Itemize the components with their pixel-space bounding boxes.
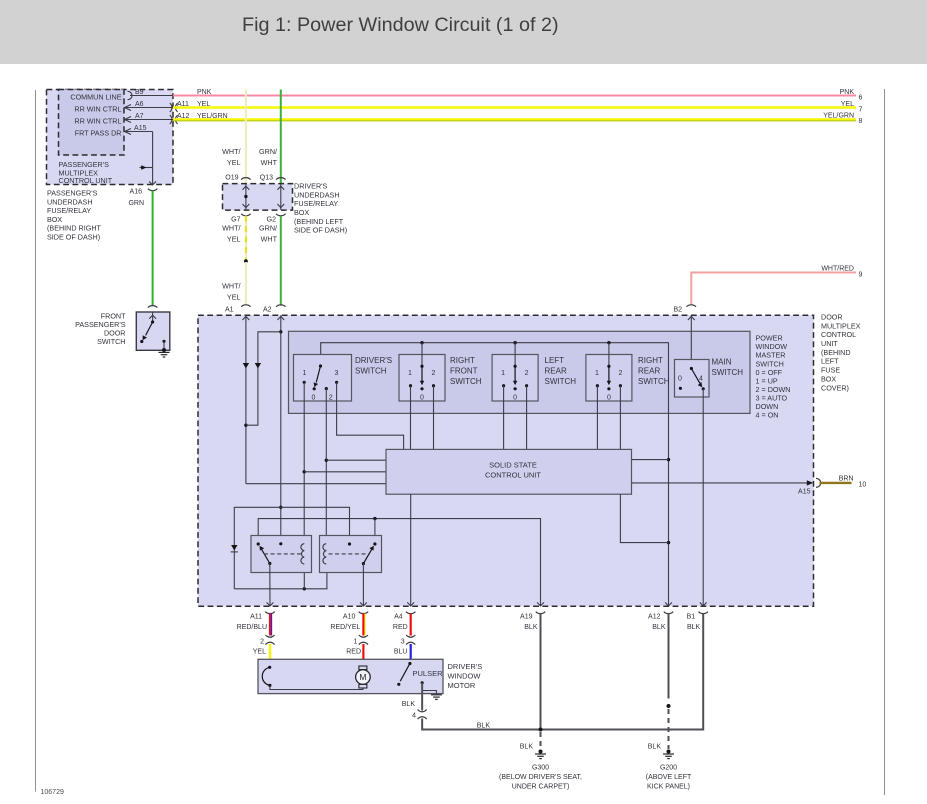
svg-text:RR WIN CTRL: RR WIN CTRL <box>74 104 121 113</box>
svg-text:A11: A11 <box>250 614 262 621</box>
svg-text:DRIVER'S: DRIVER'S <box>448 662 483 671</box>
svg-text:0: 0 <box>678 376 682 383</box>
svg-text:(BEHIND: (BEHIND <box>821 348 851 357</box>
wire YEL to motor <box>269 644 271 659</box>
connector cup A16 <box>148 189 157 191</box>
svg-text:WHT/RED: WHT/RED <box>821 265 854 272</box>
down relay common contact <box>362 562 365 565</box>
junction left coil to bus <box>303 587 306 590</box>
ground at door switch <box>159 351 170 353</box>
internal wire O19-G7 <box>245 184 247 210</box>
pulser lever <box>400 664 410 682</box>
svg-text:Q13: Q13 <box>260 175 273 182</box>
door switch contact <box>140 340 143 343</box>
motor switch arc <box>262 667 270 685</box>
wire RED/BLU <box>269 614 271 636</box>
svg-text:COMMUN LINE: COMMUN LINE <box>70 92 121 101</box>
junction A1/A2-branch <box>244 424 247 427</box>
door multiplex control unit box (dashed) <box>198 315 814 606</box>
wire GRN/WHT lower <box>280 216 282 306</box>
wire A2 vertical <box>280 315 282 544</box>
splice A12 <box>667 704 671 708</box>
right frame line <box>884 89 886 795</box>
svg-text:WHT/: WHT/ <box>222 281 240 290</box>
svg-text:RR WIN CTRL: RR WIN CTRL <box>74 116 121 125</box>
control unit output to A15 <box>632 482 809 484</box>
svg-text:G7: G7 <box>231 217 240 224</box>
svg-text:UNDERDASH: UNDERDASH <box>47 197 93 206</box>
svg-text:FUSE/RELAY: FUSE/RELAY <box>294 199 338 208</box>
wire main switch 4 to B1 <box>702 389 704 606</box>
svg-text:BLK: BLK <box>652 624 666 631</box>
main switch box <box>675 360 710 398</box>
up relay box <box>251 536 312 573</box>
right rear switch feed from bus <box>608 343 610 367</box>
left rear switch lever <box>514 366 516 381</box>
driver's switch box <box>294 355 352 402</box>
svg-text:A1: A1 <box>225 307 234 314</box>
wire BLU to pulser <box>410 644 412 663</box>
svg-text:SWITCH: SWITCH <box>712 368 744 377</box>
wire BLK from pulser <box>421 683 423 711</box>
svg-text:UNDERDASH: UNDERDASH <box>294 190 340 199</box>
svg-text:10: 10 <box>859 481 867 488</box>
junction arrow into A16 wire <box>140 167 153 169</box>
connector cap O19 <box>241 178 250 180</box>
motor switch bottom contact <box>268 684 271 687</box>
left rear switch contact 1 <box>502 384 505 387</box>
wire GRN/WHT vertical upper <box>280 90 282 184</box>
control unit bottom pin to A12 line <box>620 494 668 542</box>
pulser bottom contact <box>397 683 400 686</box>
svg-text:(BEHIND RIGHT: (BEHIND RIGHT <box>47 224 102 233</box>
right rear switch lever <box>608 366 610 381</box>
wire RED A4 <box>410 614 412 636</box>
svg-text:1: 1 <box>303 370 307 377</box>
wire A1 to control unit <box>246 483 386 485</box>
svg-text:Fig 1: Power Window Circuit (1: Fig 1: Power Window Circuit (1 of 2) <box>242 14 559 36</box>
wire YEL <box>173 106 856 108</box>
connector cap Q13 <box>276 178 285 180</box>
connector at A15 exit <box>816 478 821 487</box>
relay lever bus to A19 <box>258 519 540 607</box>
svg-text:SWITCH: SWITCH <box>97 337 125 346</box>
right rear switch wires to control unit <box>596 386 598 450</box>
wire BLK A19 <box>540 614 542 730</box>
up relay coil <box>301 544 304 564</box>
svg-text:BLU: BLU <box>394 649 408 656</box>
svg-text:LEFT: LEFT <box>545 356 565 365</box>
svg-text:1: 1 <box>595 370 599 377</box>
svg-text:MULTIPLEX: MULTIPLEX <box>821 321 861 330</box>
wire WHT/YEL lower <box>245 262 247 306</box>
main switch contact 0 <box>679 387 682 390</box>
svg-text:2: 2 <box>525 370 529 377</box>
up relay coil terminal <box>279 542 282 545</box>
svg-text:6: 6 <box>859 94 863 101</box>
right front switch feed from bus <box>421 343 423 367</box>
left rear switch box <box>492 355 538 402</box>
svg-text:A2: A2 <box>263 307 272 314</box>
wire B9 to box edge <box>130 95 173 97</box>
svg-text:B2: B2 <box>673 307 682 314</box>
svg-text:7: 7 <box>859 106 863 113</box>
arrow into pin A7 <box>125 117 132 123</box>
svg-text:4 = ON: 4 = ON <box>756 411 779 420</box>
right rear switch pivot <box>607 365 610 368</box>
svg-text:YEL: YEL <box>841 101 854 108</box>
svg-text:YEL: YEL <box>253 649 266 656</box>
down relay armature link (dashed) <box>329 553 367 555</box>
junction control unit tap <box>667 458 670 461</box>
svg-text:WINDOW: WINDOW <box>448 672 482 681</box>
wire RED to motor <box>362 644 364 666</box>
wire A6 to box edge <box>125 107 174 109</box>
svg-text:PNK: PNK <box>840 89 855 96</box>
main switch contact 4 <box>702 387 705 390</box>
svg-text:2: 2 <box>432 370 436 377</box>
left rear switch wires to control unit <box>503 386 505 450</box>
junction right rear switch <box>607 341 610 344</box>
svg-text:GRN/: GRN/ <box>259 224 277 233</box>
svg-text:SWITCH: SWITCH <box>545 377 577 386</box>
wire BLK B1 to ground bus <box>422 614 703 730</box>
passenger's underdash fuse/relay box (outer dashed) <box>47 90 174 185</box>
svg-text:1: 1 <box>408 370 412 377</box>
main switch pivot <box>690 367 693 370</box>
svg-text:KICK PANEL): KICK PANEL) <box>647 784 690 791</box>
wire down relay to A10 <box>362 564 364 607</box>
wire WHT/YEL dashed segment <box>245 216 247 261</box>
svg-text:DRIVER'S: DRIVER'S <box>355 356 392 365</box>
svg-text:REAR: REAR <box>638 367 660 376</box>
entry arrow A2 <box>277 316 284 320</box>
svg-text:BOX: BOX <box>294 208 309 217</box>
junction A2 branch <box>279 330 282 333</box>
wire PNK <box>173 95 856 97</box>
branch wire A2 to A1 <box>246 332 281 425</box>
ground G300 <box>535 753 546 755</box>
right front switch lever <box>421 366 423 381</box>
wire A15 horizontal <box>125 131 153 133</box>
svg-text:CONTROL UNIT: CONTROL UNIT <box>59 176 113 185</box>
svg-text:MAIN: MAIN <box>712 358 732 367</box>
svg-text:RIGHT: RIGHT <box>638 356 663 365</box>
svg-text:G2: G2 <box>267 217 276 224</box>
wire driver 2 to right relay coil <box>325 389 327 544</box>
junction right front switch <box>420 341 423 344</box>
svg-text:M: M <box>359 672 366 682</box>
svg-text:REAR: REAR <box>545 367 567 376</box>
svg-text:4: 4 <box>699 376 703 383</box>
right front switch contact 2 <box>432 384 435 387</box>
wire driver 1 to left relay coil <box>303 382 305 564</box>
svg-text:DRIVER'S: DRIVER'S <box>294 182 328 191</box>
right front switch box <box>399 355 445 402</box>
svg-text:FUSE/RELAY: FUSE/RELAY <box>47 206 91 215</box>
entry arrow A1 <box>243 316 250 320</box>
svg-text:CONTROL UNIT: CONTROL UNIT <box>485 470 541 479</box>
svg-text:FRT PASS DR: FRT PASS DR <box>75 128 122 137</box>
svg-text:BOX: BOX <box>47 215 62 224</box>
connector arc at B9 <box>128 91 133 99</box>
exit A19 <box>537 602 544 606</box>
svg-text:LEFT: LEFT <box>821 357 839 366</box>
svg-text:RED: RED <box>393 624 408 631</box>
right front switch wires to control unit <box>410 386 412 450</box>
junction A2 relay bus <box>279 506 282 509</box>
driver's switch lever <box>316 366 320 383</box>
pulser output contact <box>421 681 424 684</box>
down relay coil feed terminal <box>348 542 351 545</box>
connector cap B2 <box>687 305 696 307</box>
entry arrow B2 <box>688 316 695 320</box>
svg-text:0: 0 <box>513 395 517 402</box>
svg-text:G300: G300 <box>532 764 549 771</box>
svg-text:BLK: BLK <box>648 743 662 750</box>
svg-text:A16: A16 <box>130 189 143 196</box>
wire to motor <box>270 685 363 689</box>
door switch internal wire <box>152 312 154 322</box>
motor switch top contact <box>268 666 271 669</box>
exit A4 <box>407 602 414 606</box>
svg-text:0: 0 <box>312 395 316 402</box>
exit A10 <box>360 602 367 606</box>
svg-text:1: 1 <box>353 639 357 646</box>
svg-text:SOLID STATE: SOLID STATE <box>489 460 537 469</box>
svg-text:WHT/: WHT/ <box>222 224 240 233</box>
ground in motor box <box>431 694 442 696</box>
svg-text:A10: A10 <box>343 614 356 621</box>
svg-text:FUSE: FUSE <box>821 366 840 375</box>
connector 3 <box>406 635 415 637</box>
down relay box <box>320 536 382 573</box>
svg-text:B1: B1 <box>687 614 696 621</box>
svg-text:0: 0 <box>607 395 611 402</box>
up relay top-left terminal <box>257 542 260 545</box>
exit arrow A16 <box>149 181 156 185</box>
svg-text:WHT: WHT <box>261 158 278 167</box>
svg-text:BLK: BLK <box>524 624 538 631</box>
svg-text:A12: A12 <box>648 614 661 621</box>
connector cup G7 <box>241 214 250 216</box>
exit A12 <box>665 602 672 606</box>
up relay lever <box>262 549 270 563</box>
svg-text:O19: O19 <box>225 175 238 182</box>
left frame line <box>35 90 37 792</box>
right rear switch contact 1 <box>596 384 599 387</box>
connector 1 <box>359 635 368 637</box>
svg-text:(BEHIND LEFT: (BEHIND LEFT <box>294 217 344 226</box>
svg-text:RED/BLU: RED/BLU <box>237 624 267 631</box>
wire YEL/GRN <box>173 118 856 120</box>
right front switch contact 1 <box>409 384 412 387</box>
svg-text:8: 8 <box>859 118 863 125</box>
svg-text:BRN: BRN <box>839 476 854 483</box>
door switch lever <box>146 322 153 335</box>
wire B2 to main switch <box>690 315 692 368</box>
wire BRN <box>820 482 852 484</box>
connector pair at A11 <box>170 103 172 112</box>
left rear switch pivot <box>514 365 517 368</box>
dashed BLK to G200 <box>668 709 670 749</box>
connector pair at A12 <box>170 115 172 124</box>
door switch ground contact <box>162 340 165 343</box>
svg-text:PULSER: PULSER <box>413 669 444 678</box>
connector cap A2 <box>276 305 285 307</box>
control unit right tap to A12 line <box>632 459 669 461</box>
front passenger's door switch box <box>136 312 170 350</box>
svg-text:(BELOW DRIVER'S SEAT,: (BELOW DRIVER'S SEAT, <box>499 774 582 781</box>
svg-text:DOOR: DOOR <box>821 312 843 321</box>
svg-text:UNIT: UNIT <box>821 339 838 348</box>
wire WHT/RED <box>691 273 856 306</box>
driver's switch contact 3 <box>335 381 338 384</box>
junction right coil tap <box>325 459 328 462</box>
wire WHT/YEL vertical upper <box>245 90 247 184</box>
svg-text:PASSENGER'S: PASSENGER'S <box>47 189 98 198</box>
wire RED/YEL <box>362 614 364 636</box>
svg-text:BLK: BLK <box>687 624 701 631</box>
svg-text:SIDE OF DASH): SIDE OF DASH) <box>47 233 100 242</box>
svg-text:YEL: YEL <box>227 158 241 167</box>
svg-text:RIGHT: RIGHT <box>450 356 475 365</box>
solid state control unit box <box>386 449 632 494</box>
connector cup G2 <box>276 214 285 216</box>
driver's underdash fuse/relay box (dashed) <box>223 184 293 211</box>
internal wire Q13-G2 <box>280 184 282 210</box>
left rear switch contact 2 <box>525 384 528 387</box>
exit B1 <box>700 602 707 606</box>
driver's switch contact 1 <box>303 381 306 384</box>
svg-text:3: 3 <box>335 370 339 377</box>
junction in fuse box <box>244 195 247 198</box>
svg-text:FRONT: FRONT <box>450 367 478 376</box>
up relay common contact <box>268 562 271 565</box>
junction A19/ground bus <box>539 728 543 732</box>
svg-text:RED: RED <box>346 649 361 656</box>
svg-text:RED/YEL: RED/YEL <box>330 624 360 631</box>
connector 2 <box>265 635 274 637</box>
svg-text:YEL: YEL <box>197 101 210 108</box>
down relay lever terminal <box>373 542 376 545</box>
svg-text:9: 9 <box>859 272 863 279</box>
wire A1 vertical <box>245 315 247 484</box>
driver's switch contact 2 <box>325 387 328 390</box>
svg-text:CONTROL: CONTROL <box>821 330 856 339</box>
svg-text:SWITCH: SWITCH <box>638 377 670 386</box>
junction left rear switch <box>513 341 516 344</box>
wire pulser to ground <box>422 683 436 695</box>
wire up relay to A11 <box>269 564 271 607</box>
driver's switch pivot <box>319 364 322 367</box>
right rear switch box <box>586 355 632 402</box>
svg-text:(ABOVE LEFT: (ABOVE LEFT <box>646 774 692 781</box>
svg-text:BLK: BLK <box>477 722 491 729</box>
svg-text:3: 3 <box>401 639 405 646</box>
wire BLK A12 <box>668 614 670 699</box>
svg-text:2: 2 <box>618 370 622 377</box>
passenger's multiplex control unit (inner dashed) <box>59 90 125 156</box>
left rear switch contact 0 <box>514 387 517 390</box>
wire driver 3 to control unit <box>337 382 404 449</box>
svg-text:WHT/: WHT/ <box>222 147 240 156</box>
svg-text:SWITCH: SWITCH <box>355 367 387 376</box>
ground G200 <box>663 753 674 755</box>
svg-text:0: 0 <box>420 395 424 402</box>
svg-text:106729: 106729 <box>41 789 64 796</box>
right rear switch contact 0 <box>607 387 610 390</box>
header bar <box>0 0 927 64</box>
arrow into pin A15 <box>125 129 132 135</box>
junction coil tap to control unit <box>303 470 306 473</box>
svg-text:1: 1 <box>501 370 505 377</box>
junction right relay lever <box>373 517 376 520</box>
svg-text:A19: A19 <box>520 614 533 621</box>
svg-text:SIDE OF DASH): SIDE OF DASH) <box>294 226 347 235</box>
motor M1 <box>359 666 367 670</box>
svg-text:GRN: GRN <box>128 200 144 207</box>
pulser top contact <box>408 662 411 665</box>
up relay armature link (dashed) <box>264 553 301 555</box>
svg-text:2: 2 <box>260 639 264 646</box>
svg-text:MOTOR: MOTOR <box>448 681 476 690</box>
door switch pivot <box>151 320 154 323</box>
svg-text:4: 4 <box>412 712 416 719</box>
svg-text:GRN/: GRN/ <box>259 147 277 156</box>
wire BLK to ground bus <box>421 719 423 731</box>
exit A11 <box>267 602 274 606</box>
wire GRN down to door switch <box>152 191 154 307</box>
wire A15 down to A16 <box>152 132 154 186</box>
connector cap at door switch <box>148 306 157 308</box>
inner switch assembly box <box>289 331 751 413</box>
svg-text:SWITCH: SWITCH <box>450 377 482 386</box>
coil ground bus <box>234 564 327 589</box>
main switch lever <box>691 369 699 384</box>
wire A4 from control unit <box>410 494 412 606</box>
svg-text:BOX: BOX <box>821 374 836 383</box>
svg-text:PNK: PNK <box>197 89 212 96</box>
relay coil feed bus <box>234 507 349 589</box>
svg-text:YEL/GRN: YEL/GRN <box>823 113 854 120</box>
svg-text:WHT: WHT <box>261 235 278 244</box>
right front switch contact 0 <box>420 387 423 390</box>
svg-text:YEL/GRN: YEL/GRN <box>197 113 228 120</box>
svg-text:YEL: YEL <box>227 292 241 301</box>
svg-text:A15: A15 <box>798 489 811 496</box>
svg-text:2: 2 <box>329 395 333 402</box>
left rear switch feed from bus <box>514 343 516 367</box>
down relay lever <box>363 549 371 563</box>
svg-text:A4: A4 <box>394 614 403 621</box>
svg-text:G200: G200 <box>660 764 677 771</box>
arrow into pin A6 <box>125 105 132 111</box>
junction A12 tap <box>667 541 670 544</box>
connector 4 <box>418 710 427 712</box>
dashed BLK to G300 <box>540 732 542 749</box>
driver's switch contact 0 <box>313 387 316 390</box>
right rear switch contact 2 <box>619 384 622 387</box>
switch common bus (position 1 rail) <box>321 343 669 607</box>
wire A7 to box edge <box>125 119 174 121</box>
svg-text:BLK: BLK <box>520 743 534 750</box>
svg-text:UNDER CARPET): UNDER CARPET) <box>512 784 570 791</box>
splice dot on WHT/YEL <box>244 259 248 263</box>
down relay coil <box>323 544 326 564</box>
driver's window motor box <box>258 659 443 693</box>
svg-text:COVER): COVER) <box>821 383 849 392</box>
